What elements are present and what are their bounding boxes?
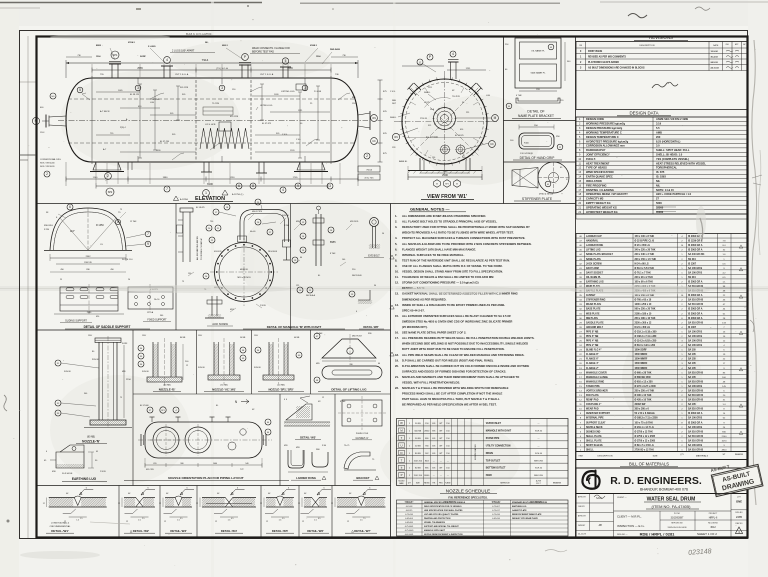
band2 tiny annotations: [46, 333, 380, 473]
svg-text:HYDROTEST PRESSURE kg/cm2g: HYDROTEST PRESSURE kg/cm2g: [586, 139, 629, 143]
svg-text:PIPE 2" NB: PIPE 2" NB: [586, 345, 599, 347]
svg-text:9: 9: [147, 242, 149, 246]
weld dim marks: [352, 516, 370, 518]
svg-text:CIRCUMFERENTIAL: CIRCUMFERENTIAL: [50, 525, 72, 528]
gusset plate with holes: [342, 400, 382, 426]
svg-text:940: 940: [245, 463, 248, 465]
svg-text:ASME SEC-VIII DIV-2 1989: ASME SEC-VIII DIV-2 1989: [656, 117, 689, 121]
svg-text:1: 1: [205, 191, 207, 195]
svg-text:DETAIL-'W6': DETAIL-'W6': [307, 529, 324, 533]
hexagon markers B SP2 B: [434, 180, 441, 188]
svg-text:4: 4: [166, 58, 168, 62]
svg-text:1.: 1.: [395, 214, 398, 218]
svg-text:—: —: [538, 423, 540, 425]
svg-text:60°: 60°: [268, 493, 271, 495]
svg-text:R 230: R 230: [44, 229, 49, 231]
svg-text:6100: 6100: [207, 182, 213, 186]
svg-text:TO VESSEL CL DATUM: TO VESSEL CL DATUM: [200, 238, 203, 260]
svg-text:MANHOLE COVER: MANHOLE COVER: [586, 371, 607, 374]
upper-right 45 deg stub: [469, 83, 483, 95]
svg-text:FIXED SUPPORT: FIXED SUPPORT: [147, 319, 167, 322]
bottom margin streak: [90, 522, 130, 524]
svg-text:SA 105: SA 105: [688, 376, 696, 379]
balloon P: [242, 54, 249, 61]
svg-text:SA 516 GR 60: SA 516 GR 60: [688, 439, 704, 442]
svg-text:32500: 32500: [656, 205, 664, 209]
svg-text:28 HOLES: 28 HOLES: [268, 251, 278, 253]
manhole ring circle: [215, 243, 274, 302]
svg-text:IS 1367: IS 1367: [688, 327, 697, 329]
svg-text:28/50: 28/50: [424, 430, 430, 432]
design data grid: [576, 117, 747, 214]
svg-text:Ø 20 x 350 LG: Ø 20 x 350 LG: [635, 245, 651, 247]
rd engineers logo: [582, 471, 599, 489]
svg-text:12: 12: [298, 503, 300, 505]
svg-text:12: 12: [347, 521, 349, 523]
svg-text:LIST AND STD DRG QUALITY PLATE: LIST AND STD DRG QUALITY PLATES: [424, 513, 459, 516]
svg-text:Ø 2750 x 12 x 2565: Ø 2750 x 12 x 2565: [635, 440, 656, 442]
svg-text:REFRACTORY USED FOR FITTING SH: REFRACTORY USED FOR FITTING SHALL BE PRO…: [402, 225, 530, 229]
design data outer second line: [576, 218, 747, 220]
dim 1249 above end view: [402, 65, 444, 67]
svg-text:Ø 168.3 x 7.11 x 2200: Ø 168.3 x 7.11 x 2200: [635, 418, 659, 420]
svg-text:PROJECT: PROJECT: [709, 513, 718, 515]
svg-text:IS 2062 GR A: IS 2062 GR A: [688, 294, 703, 297]
svg-text:F.W. REFERENCE SPECI./STDS.: F.W. REFERENCE SPECI./STDS.: [448, 496, 488, 500]
svg-text:REINF PAD: REINF PAD: [586, 399, 599, 402]
svg-text:1705: 1705: [293, 177, 299, 179]
weld groove: [358, 496, 365, 506]
balloons misc band1: [297, 287, 303, 293]
svg-text:45°: 45°: [318, 401, 321, 403]
svg-text:300 x 300 x 6: 300 x 300 x 6: [635, 409, 650, 411]
weld groove: [277, 496, 284, 506]
svg-text:560 x 250 x 20 THK: 560 x 250 x 20 THK: [635, 309, 656, 311]
svg-text:150# WNRF: 150# WNRF: [635, 368, 648, 370]
top nozzle stub end view: [450, 62, 452, 79]
svg-text:MANHOLE WITH DAVIT: MANHOLE WITH DAVIT: [424, 529, 446, 532]
title block lower grid: [576, 494, 747, 538]
dished head cutting detail arc: [50, 208, 126, 250]
hand grip dim 550: [519, 126, 554, 128]
svg-text:10.: 10.: [395, 270, 399, 274]
svg-text:MANHOLE RING: MANHOLE RING: [586, 380, 604, 383]
svg-text:DESIGN TEMPERATURE C: DESIGN TEMPERATURE C: [586, 135, 619, 139]
svg-text:SA 516 GR 60: SA 516 GR 60: [688, 399, 704, 402]
dim row above heads: [66, 56, 92, 58]
svg-text:SA 106 GR B: SA 106 GR B: [688, 335, 702, 338]
as-built stamp: [711, 464, 763, 496]
svg-text:EARTHING LUG: EARTHING LUG: [72, 477, 97, 481]
end view shell circle: [402, 79, 487, 164]
svg-text:PIPE 4" NB: PIPE 4" NB: [586, 340, 599, 343]
dished head chord line: [44, 250, 132, 252]
orientation nozzle circle 2: [185, 427, 211, 453]
svg-text:12: 12: [266, 521, 268, 523]
svg-text:ALL EXTERIOR UNPAINTED SURFACE: ALL EXTERIOR UNPAINTED SURFACES SHALL BE…: [402, 314, 511, 318]
svg-text:SHELL PLATE: SHELL PLATE: [586, 439, 602, 442]
svg-text:IS 2062 GR A: IS 2062 GR A: [688, 249, 703, 252]
above vessel annotations: [96, 41, 341, 58]
svg-text:IS 2062 GR A: IS 2062 GR A: [688, 308, 703, 311]
svg-text:30: 30: [374, 285, 376, 287]
svg-text:PLATFORM CLEATS ADDED: PLATFORM CLEATS ADDED: [588, 61, 619, 64]
ladder rung channels: [288, 450, 304, 468]
balloon 65: [545, 181, 551, 187]
svg-text:SA 516 GR 60: SA 516 GR 60: [688, 394, 704, 397]
weld groove: [136, 498, 144, 508]
svg-text:VORTEX BREAKER: VORTEX BREAKER: [586, 389, 608, 392]
left margin band: [0, 0, 19, 577]
svg-text:4-75-017: 4-75-017: [492, 510, 500, 512]
svg-text:DESCRIPTION: DESCRIPTION: [530, 502, 542, 504]
svg-text:3.5: 3.5: [180, 518, 183, 520]
svg-text:4-62-034: 4-62-034: [492, 518, 500, 520]
svg-text:12: 12: [159, 503, 161, 505]
nozzle N top flange: [95, 338, 121, 343]
svg-text:26 A: 26 A: [430, 108, 435, 111]
revisions table grid: [576, 42, 747, 110]
weld leader arrow: [317, 490, 331, 496]
svg-text:655: 655: [153, 463, 156, 465]
earthing lug sketch: [56, 452, 84, 468]
svg-text:100: 100: [342, 259, 345, 261]
bottom dimension second row: [96, 185, 328, 187]
svg-text:1.5: 1.5: [76, 520, 79, 522]
svg-text:NOTE: 14 & 15: NOTE: 14 & 15: [656, 188, 674, 192]
svg-text:50 NB: 50 NB: [415, 423, 421, 425]
svg-text:SA 516 GR 60: SA 516 GR 60: [688, 380, 704, 383]
svg-text:OIL NAME PL: OIL NAME PL: [586, 276, 602, 279]
svg-text:SERVICE: SERVICE: [500, 482, 510, 484]
divider under name plate detail: [504, 120, 576, 122]
nozzle B balloons: [138, 345, 144, 351]
left saddle support: [93, 162, 121, 170]
svg-text:BASE PLATE: BASE PLATE: [586, 308, 601, 311]
weld dim marks: [131, 516, 149, 518]
svg-text:SA 516 GR 60: SA 516 GR 60: [688, 408, 704, 411]
manhole davit pipe: [240, 210, 289, 243]
svg-text:50: 50: [382, 233, 384, 235]
svg-text:600 NB: 600 NB: [414, 430, 421, 432]
fold crease horizontal: [0, 286, 768, 291]
svg-text:60°: 60°: [349, 493, 352, 495]
manhole bolt ticks: [433, 107, 457, 131]
svg-text:DAVIT ARM: DAVIT ARM: [586, 267, 599, 270]
svg-text:3000# SW: 3000# SW: [635, 404, 647, 406]
svg-text:45°: 45°: [452, 90, 455, 92]
svg-text:8: 8: [252, 184, 254, 188]
svg-text:200: 200: [656, 135, 661, 139]
svg-text:19.: 19.: [395, 358, 399, 362]
orientation dim below: [145, 464, 262, 466]
svg-text:7914: 7914: [202, 58, 209, 62]
svg-text:VESSEL WITH FULL PENETRATION W: VESSEL WITH FULL PENETRATION WELDS.: [402, 381, 460, 385]
svg-text:Ø 32 B PIPE CL-B: Ø 32 B PIPE CL-B: [635, 241, 655, 243]
svg-text:SA 106 GR B: SA 106 GR B: [688, 426, 702, 429]
svg-text:STORM OUT CONDITIONING PRESSUR: STORM OUT CONDITIONING PRESSURE — 3.5 kg…: [402, 281, 479, 285]
svg-text:BASE EL: BASE EL: [399, 160, 408, 163]
svg-text:REVISED AS PER M/S COMMENTS: REVISED AS PER M/S COMMENTS: [588, 56, 626, 59]
svg-text:WELD SPECIFICATION FOR CS VESS: WELD SPECIFICATION FOR CS VESSELS: [424, 505, 462, 508]
balloon top left of end view: [417, 59, 423, 65]
svg-text:655 CRS: 655 CRS: [146, 469, 154, 471]
gas name plate rect: [520, 64, 557, 81]
svg-text:SP2: SP2: [108, 191, 113, 194]
top dimension line overall: [66, 62, 358, 64]
svg-text:EARTHING LUG: EARTHING LUG: [512, 505, 527, 508]
svg-text:Ø 660 x 28 THK: Ø 660 x 28 THK: [635, 372, 652, 374]
svg-text:4-62-0081: 4-62-0081: [405, 534, 414, 536]
svg-text:(50 NB): (50 NB): [220, 385, 227, 387]
partition detail column left of notes: [503, 37, 505, 204]
svg-text:Ø 400 x 10 THK: Ø 400 x 10 THK: [635, 394, 652, 397]
svg-text:DETAIL-'W5': DETAIL-'W5': [272, 529, 289, 533]
svg-text:REMARKS: REMARKS: [735, 453, 744, 456]
svg-text:150# 200: 150# 200: [414, 475, 423, 477]
svg-text:T: T: [401, 458, 403, 462]
bill of materials rows: [576, 235, 747, 451]
bottom dimension chain: [66, 178, 358, 180]
nozzle schedule grid: [397, 419, 569, 486]
svg-text:750: 750: [210, 221, 213, 223]
svg-text:1070: 1070: [722, 440, 728, 442]
svg-text:TYPE OF HEADS: TYPE OF HEADS: [586, 166, 607, 170]
nozzle B dim: [182, 344, 184, 380]
svg-text:IS 2062 GR A: IS 2062 GR A: [688, 412, 703, 415]
divider W3 box: [279, 394, 281, 486]
svg-text:DETAIL-'W1': DETAIL-'W1': [51, 529, 69, 533]
svg-text:SA 105: SA 105: [688, 349, 696, 352]
svg-text:EYE BOLT: EYE BOLT: [368, 255, 380, 258]
svg-text:12: 12: [64, 521, 66, 523]
svg-text:6: 6: [356, 311, 357, 313]
svg-text:2350 x 300 x 12: 2350 x 300 x 12: [635, 322, 653, 324]
orientation nozzle circle 1: [153, 427, 179, 453]
top margin specks: [247, 5, 249, 7]
balloon 8 bottom: [250, 183, 256, 189]
svg-text:INSPECTION — E.I.L.: INSPECTION — E.I.L.: [617, 524, 645, 528]
weld joint bars: [202, 497, 226, 499]
svg-text:LINE SPECIFICATION FOR SHELL P: LINE SPECIFICATION FOR SHELL PLATES: [424, 509, 463, 512]
elevation leader arrows: [82, 87, 350, 160]
svg-text:H2O + COKE PARTICLE / 1.0: H2O + COKE PARTICLE / 1.0: [656, 192, 692, 196]
svg-text:(40 NB): (40 NB): [277, 385, 284, 387]
svg-text:M10: M10: [52, 471, 56, 473]
svg-text:Ø 219.1 x 8.18 x 300: Ø 219.1 x 8.18 x 300: [635, 331, 658, 333]
svg-text:Ø20: Ø20: [284, 445, 288, 447]
svg-text:NAME PLATE BRACKET: NAME PLATE BRACKET: [518, 114, 554, 118]
svg-text:CUT 1 S.O. A: CUT 1 S.O. A: [260, 73, 274, 76]
balloons 7 9 head leaders: [145, 231, 151, 237]
svg-text:610 BCD: 610 BCD: [214, 251, 222, 253]
svg-text:WORKING TEMPERATURE C: WORKING TEMPERATURE C: [586, 130, 622, 134]
svg-text:—: —: [440, 460, 442, 462]
svg-text:75: 75: [120, 209, 122, 211]
svg-text:LIFTING LUG: LIFTING LUG: [281, 91, 295, 93]
end view centerlines: [394, 121, 497, 123]
divider under nozzle band: [133, 393, 391, 395]
svg-text:DESIGN CODE: DESIGN CODE: [586, 117, 604, 121]
svg-text:4-62-084: 4-62-084: [405, 522, 413, 524]
svg-text:NIL: NIL: [656, 183, 661, 187]
svg-text:GENERAL NOTES —: GENERAL NOTES —: [410, 207, 450, 212]
svg-text:EL 98.425: EL 98.425: [196, 207, 205, 209]
svg-text:C/L: C/L: [100, 244, 103, 246]
svg-text:21.: 21.: [395, 375, 399, 379]
svg-text:TORISPHERICAL: TORISPHERICAL: [656, 166, 678, 170]
svg-text:13.: 13.: [395, 292, 399, 296]
svg-text:WORKING PRESSURE kg/cm2g: WORKING PRESSURE kg/cm2g: [586, 122, 625, 126]
svg-text:Ø114.3: Ø114.3: [128, 41, 136, 44]
balloon 44: [506, 103, 512, 109]
divider nozzle N box: [132, 330, 134, 486]
svg-text:SURFACES AND EDGES OF FORMED D: SURFACES AND EDGES OF FORMED DISH END FO…: [402, 369, 506, 373]
bom header row: [576, 459, 747, 461]
weld leader arrow: [79, 490, 93, 496]
svg-text:W: W: [400, 421, 403, 425]
weld W4 extra bar: [206, 503, 252, 505]
balloon 43a: [548, 44, 554, 50]
svg-text:200 x 150 x 1.5 THK: 200 x 150 x 1.5 THK: [635, 259, 657, 261]
svg-text:LADDER RUNG: LADDER RUNG: [586, 244, 603, 247]
svg-text:ITEM: ITEM: [578, 456, 583, 458]
svg-text:6: 6: [46, 451, 47, 453]
svg-text:ONE: ONE: [736, 500, 742, 504]
svg-text:SA 516 GR 60: SA 516 GR 60: [688, 389, 704, 392]
partition notes left border: [390, 204, 392, 538]
balloon W1 left of end view: [392, 133, 399, 140]
svg-text:Ø 610 x 12 x 250: Ø 610 x 12 x 250: [635, 381, 654, 383]
balloon SP1: [111, 51, 119, 59]
svg-text:SLIDING SUPPORT: SLIDING SUPPORT: [65, 320, 87, 323]
svg-text:SA 106 GR B: SA 106 GR B: [688, 340, 702, 343]
svg-text:4-75-0041: 4-75-0041: [405, 526, 414, 528]
weld leader arrow: [231, 490, 245, 496]
svg-text:FEED: FEED: [486, 475, 492, 477]
svg-text:SEE DRG: SEE DRG: [534, 460, 543, 462]
svg-text:4-62-35: 4-62-35: [406, 510, 413, 512]
svg-text:6: 6: [69, 205, 71, 209]
svg-text:1230: 1230: [230, 177, 236, 179]
svg-text:FLANGES WEIGHT 1976 SHALL HAVE: FLANGES WEIGHT 1976 SHALL HAVE MIN-MAX R…: [402, 247, 476, 251]
svg-text:R 240: R 240: [284, 225, 289, 227]
weld joint bars: [266, 497, 277, 499]
svg-text:EL 97.875: EL 97.875: [262, 123, 272, 125]
svg-text:NOZZLE-'N': NOZZLE-'N': [82, 440, 100, 444]
svg-text:HEAT TREATMENT: HEAT TREATMENT: [586, 161, 610, 165]
svg-text:NOZZLE-'B': NOZZLE-'B': [159, 388, 176, 392]
bom remark triangles: [739, 245, 743, 434]
svg-text:EL 97.250: EL 97.250: [160, 141, 170, 143]
svg-text:50 Ø HOLE: 50 Ø HOLE: [62, 473, 73, 475]
svg-text:EMPTY WEIGHT KG: EMPTY WEIGHT KG: [586, 201, 611, 205]
svg-text:BUTT JOINT WITH ROOT RUN TO BE: BUTT JOINT WITH ROOT RUN TO BE USED TO E…: [402, 347, 505, 351]
svg-text:80 NB: 80 NB: [415, 468, 421, 470]
svg-text:JACK SCREW: JACK SCREW: [212, 323, 228, 326]
svg-text:SA 105: SA 105: [688, 362, 696, 365]
svg-text:WHEN SECOND SIDE WELDING IS NO: WHEN SECOND SIDE WELDING IS NOT POSSIBLE…: [402, 342, 528, 346]
svg-text:SPECS NO: SPECS NO: [405, 502, 414, 504]
svg-text:305 CRS: 305 CRS: [180, 87, 189, 89]
svg-text:SECN A-A: SECN A-A: [306, 294, 316, 297]
svg-text:—: —: [440, 475, 442, 477]
svg-text:50 NB: 50 NB: [240, 337, 246, 339]
lifting lug gusset: [322, 339, 376, 358]
svg-text:220 x 90 x 2 THK: 220 x 90 x 2 THK: [635, 277, 654, 279]
svg-text:12: 12: [43, 503, 45, 505]
svg-text:Ø 168.3 x 7.11 x 280: Ø 168.3 x 7.11 x 280: [635, 336, 657, 338]
head detail dim lines: [50, 257, 126, 259]
svg-text:2362: 2362: [86, 256, 92, 258]
balloon 6 head detail: [67, 204, 73, 210]
svg-text:(25 MICRONS DFT).: (25 MICRONS DFT).: [402, 325, 428, 329]
nozzle schedule rows: [397, 421, 569, 479]
svg-text:DESCRIPTION: DESCRIPTION: [640, 45, 655, 47]
svg-text:BLIND FLG 4": BLIND FLG 4": [586, 349, 601, 352]
svg-text:SA 516 GR 60: SA 516 GR 60: [688, 371, 704, 374]
svg-text:80/40: 80/40: [424, 475, 430, 477]
left margin guide line: [27, 36, 29, 538]
weld joint bars: [304, 497, 312, 499]
svg-text:KNUCKLE: KNUCKLE: [44, 225, 54, 227]
elevation internal horizontal dims: [96, 92, 330, 152]
svg-text:LUG: LUG: [150, 102, 155, 104]
svg-text:DETAIL OF LIFTING LUG: DETAIL OF LIFTING LUG: [331, 388, 367, 392]
svg-text:FLANGE 2": FLANGE 2": [586, 367, 599, 370]
end view radial gusset lines near rim: [411, 88, 479, 156]
svg-text:SA 240 GR 304: SA 240 GR 304: [688, 253, 705, 256]
partition line below elevation band: [37, 203, 576, 205]
svg-text:SHEET 1 OF 2: SHEET 1 OF 2: [697, 532, 717, 536]
svg-text:75 CRS: 75 CRS: [212, 103, 220, 105]
weld leader arrow: [180, 490, 194, 496]
svg-text:6: 6: [238, 184, 240, 188]
svg-text:DWN BY: DWN BY: [578, 525, 586, 527]
balloon 4: [164, 57, 171, 64]
svg-text:2485: 2485: [736, 515, 743, 519]
right margin marks: [752, 175, 762, 185]
svg-text:14.: 14.: [395, 303, 399, 307]
svg-text:BOTTOM OUTLET: BOTTOM OUTLET: [486, 468, 506, 470]
svg-text:FIRST ISSUE: FIRST ISSUE: [588, 51, 603, 53]
nozzle M left head: [45, 115, 47, 128]
svg-text:SA 106 GR B: SA 106 GR B: [688, 267, 702, 270]
svg-text:80 NB: 80 NB: [180, 337, 186, 339]
svg-text:DIMENSIONS AS PER REQUIRED.: DIMENSIONS AS PER REQUIRED.: [402, 297, 447, 301]
svg-text:—: —: [538, 445, 540, 447]
svg-text:2750 I/D: 2750 I/D: [420, 118, 428, 120]
svg-text:8 THK: 8 THK: [340, 401, 346, 403]
svg-text:IS 2062 GR A: IS 2062 GR A: [688, 421, 703, 424]
svg-text:3: 3: [221, 86, 223, 90]
svg-text:JOINT EFFICIENCY: JOINT EFFICIENCY: [586, 152, 610, 156]
svg-text:26×50: 26×50: [154, 298, 159, 301]
svg-text:1.5: 1.5: [228, 520, 231, 522]
svg-text:2 LUGS: 2 LUGS: [314, 91, 322, 93]
svg-text:220 x 340 x 3 THK: 220 x 340 x 3 THK: [635, 253, 655, 256]
svg-text:Ø 114.3 x 6.02 x 250: Ø 114.3 x 6.02 x 250: [635, 340, 657, 343]
svg-text:12: 12: [302, 521, 304, 523]
saddle sliding baseplate: [60, 287, 118, 311]
balloon 2 left bottom: [44, 171, 50, 177]
right saddle support: [297, 162, 325, 170]
svg-text:TEST RUN OF THE WATERSIDE UNIT: TEST RUN OF THE WATERSIDE UNIT SHALL BE …: [402, 258, 510, 262]
svg-text:2: 2: [46, 172, 48, 176]
svg-text:35060: 35060: [656, 210, 664, 214]
svg-text:DESIGN DATA: DESIGN DATA: [629, 111, 658, 116]
svg-text:ALL DIMENSIONS ARE IN MM UNLES: ALL DIMENSIONS ARE IN MM UNLESS OTHERWIS…: [402, 214, 486, 218]
